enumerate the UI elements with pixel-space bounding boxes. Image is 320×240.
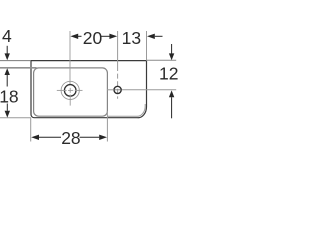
extension line top edge left (0, 60, 31, 62)
drain centerline vertical (69, 88, 71, 93)
basin inner bowl (34, 68, 108, 116)
dimension 18 arrow up (5, 68, 10, 75)
tap centerline horizontal left (107, 89, 114, 91)
drain outer circle (61, 81, 79, 99)
svg-text:18: 18 (0, 86, 19, 106)
dimension 18 leader (6, 104, 8, 111)
svg-text:20: 20 (83, 28, 103, 48)
dimension 13 arrow (147, 34, 155, 39)
extension line bottom edge left (0, 117, 31, 119)
dimension 20 arrow left (70, 34, 78, 39)
basin rim inner edge bottom-right (107, 104, 145, 116)
dimension 20 arrow right (109, 34, 117, 39)
dimension 12 arrow down (169, 53, 174, 60)
svg-text:12: 12 (159, 64, 178, 84)
dimension 12 leader top (171, 44, 173, 54)
dimension 18 arrow down (5, 111, 10, 118)
dimension 4 arrow down (5, 53, 10, 60)
extension line top edge right (147, 59, 177, 61)
tap hole circle (114, 86, 121, 93)
svg-text:13: 13 (122, 28, 141, 48)
dimension 28 arrow right (99, 135, 107, 140)
extension line basin left bottom (30, 118, 32, 142)
dimension 20 line (78, 35, 82, 37)
extension line bowl edge left (0, 67, 37, 69)
dimension 28 arrow left (31, 135, 39, 140)
extension line tap center vertical (117, 31, 119, 66)
drain inner circle (64, 85, 76, 97)
tap centerline dash (115, 89, 120, 91)
drain centerline horizontal (57, 89, 67, 91)
extension line bowl right bottom (106, 111, 108, 142)
svg-text:28: 28 (61, 128, 80, 148)
dimension 12 arrow up (169, 90, 174, 97)
extension line drain center vertical (69, 31, 71, 84)
extension line right edge top (146, 31, 148, 61)
dimension 28 line right (80, 136, 100, 138)
svg-text:4: 4 (2, 26, 12, 46)
dimension 4 leader (6, 46, 8, 54)
tap centerline horizontal right (122, 89, 176, 91)
basin outer outline (31, 61, 147, 118)
